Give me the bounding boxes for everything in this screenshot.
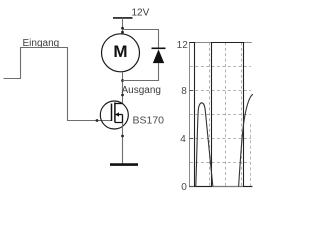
graph h-gridline 6 — [190, 114, 251, 116]
transistor Q1 source stub — [115, 115, 123, 123]
graph h-gridline 2 — [190, 162, 251, 164]
svg-text:Ausgang: Ausgang — [122, 85, 161, 96]
axis tick 12 — [190, 42, 194, 44]
node source pin — [121, 135, 124, 138]
transistor Q1 body circle — [100, 101, 128, 129]
node drain pin — [121, 94, 124, 97]
node junction diode top branch — [121, 27, 124, 30]
waveform square output voltage — [190, 43, 253, 187]
supply bar +12V — [113, 17, 133, 19]
wire diode branch bottom — [123, 63, 159, 81]
waveform motor current hump 1 — [196, 103, 213, 187]
ground — [110, 163, 138, 166]
svg-text:8: 8 — [181, 86, 187, 97]
axis tick 4 — [190, 138, 194, 140]
wire supply to motor top — [122, 18, 124, 34]
axis tick 0 — [190, 186, 194, 188]
graph axis left — [189, 42, 191, 187]
graph v-gridline 2 — [225, 43, 227, 187]
graph v-gridline 3 — [241, 43, 243, 187]
graph v-gridline 4 partial — [250, 124, 252, 186]
svg-text:4: 4 — [180, 134, 186, 145]
wire source to ground — [122, 123, 124, 165]
transistor Q1 channel bar — [114, 102, 116, 122]
waveform motor current hump 2 — [239, 95, 253, 187]
wire input — [4, 48, 112, 121]
graph h-gridline 4 — [190, 138, 251, 140]
graph v-gridline 1 — [209, 43, 211, 187]
graph axis top — [189, 42, 252, 44]
node motor top pin — [121, 31, 124, 34]
svg-text:M: M — [113, 42, 127, 61]
diode D1 anode triangle — [153, 49, 164, 63]
svg-text:0: 0 — [181, 182, 187, 193]
motor M1 — [102, 34, 140, 72]
transistor Q1 drain stub — [115, 103, 123, 105]
graph axis bottom — [189, 186, 253, 188]
graph h-gridline 8 — [190, 90, 251, 92]
node junction diode bottom branch — [121, 79, 124, 82]
axis tick 8 — [190, 90, 194, 92]
diode D1 cathode bar — [152, 47, 166, 49]
svg-text:BS170: BS170 — [133, 114, 165, 126]
svg-text:12V: 12V — [132, 8, 150, 19]
wire motor bottom to transistor drain — [122, 72, 124, 104]
transistor Q1 body arrow — [115, 112, 119, 117]
graph h-gridline 10 — [190, 66, 251, 68]
svg-text:12: 12 — [177, 40, 189, 51]
transistor Q1 body stub — [115, 114, 123, 116]
wire diode branch top — [123, 30, 159, 49]
transistor Q1 gate bar — [111, 104, 113, 121]
node gate pin — [96, 119, 99, 122]
